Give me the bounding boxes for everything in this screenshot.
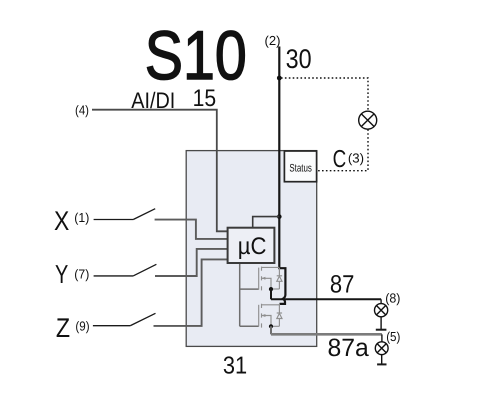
transistor Q1 (high-side MOSFET for 87) <box>259 267 280 291</box>
microcontroller uC box <box>228 228 275 263</box>
switch S2 blade (Y) <box>133 264 156 276</box>
ground below lamp E5 <box>377 363 386 365</box>
svg-text:Status: Status <box>289 163 312 175</box>
module block U1 outline <box>186 151 317 347</box>
svg-text:87a: 87a <box>328 334 369 362</box>
wire input X lead <box>94 219 134 221</box>
lamp E5 on output 87a <box>375 342 388 364</box>
switch S1 blade (X) <box>134 209 156 220</box>
svg-text:30: 30 <box>286 44 312 74</box>
wire 87a output <box>271 333 382 336</box>
svg-text:(7): (7) <box>74 266 89 281</box>
wire 30 rail from pin (2) down to MOSFET drains <box>279 47 285 304</box>
wire input Y lead <box>94 275 134 277</box>
svg-text:Y: Y <box>55 259 68 289</box>
svg-text:(9): (9) <box>75 318 89 333</box>
wire drop to lamp (8) <box>380 299 382 303</box>
svg-text:(4): (4) <box>75 103 89 118</box>
wire X switch to uC <box>155 220 228 239</box>
svg-text:(2): (2) <box>265 33 281 48</box>
node dot uC supply tap on 30 rail <box>277 214 282 219</box>
wire uC supply from 30 rail <box>253 217 280 228</box>
svg-text:87: 87 <box>330 271 355 299</box>
wire Y switch to uC <box>155 249 228 276</box>
wire Z switch to uC <box>154 259 228 326</box>
wire Q2 source down to 87a <box>270 326 272 334</box>
transistor Q2 (high-side MOSFET for 87a) <box>259 304 280 328</box>
svg-text:(8): (8) <box>385 290 400 305</box>
dashed wire from status lamp C to Status box <box>317 129 368 170</box>
Q1 substrate arrowhead <box>262 277 266 280</box>
svg-text:C: C <box>333 146 347 173</box>
wire gate riser from uC to Q1/Q2 gates <box>240 263 259 326</box>
svg-text:X: X <box>54 206 69 236</box>
svg-text:Z: Z <box>56 313 70 343</box>
node dot Q1 source <box>269 287 273 291</box>
dashed wire from 30 rail to status lamp C <box>281 78 368 111</box>
body diode D2 <box>277 304 282 326</box>
body diode D1 <box>277 268 282 289</box>
ground below lamp E8 <box>376 329 387 331</box>
svg-text:(1): (1) <box>74 210 89 225</box>
wire drop to lamp (5) <box>381 334 383 342</box>
wire AI/DI pin (4) to 15 input of uC <box>92 110 228 232</box>
svg-text:31: 31 <box>223 352 247 379</box>
svg-text:15: 15 <box>193 85 217 112</box>
node dot Q2 source <box>269 324 273 328</box>
svg-text:µC: µC <box>238 233 267 260</box>
svg-text:(3): (3) <box>348 151 364 166</box>
wire 87 output <box>271 298 381 300</box>
status lamp C <box>359 111 377 129</box>
wire input Z lead <box>93 325 130 327</box>
switch S3 blade (Z) <box>130 313 155 325</box>
wire Q1 source down to 87 <box>270 289 272 299</box>
svg-text:S10: S10 <box>145 17 247 94</box>
lamp E8 on output 87 <box>375 304 388 330</box>
node dot on 30 rail for status lamp tap <box>277 76 282 81</box>
svg-text:AI/DI: AI/DI <box>131 88 175 113</box>
status box <box>284 151 316 182</box>
Q2 substrate arrowhead <box>262 314 266 317</box>
svg-text:(5): (5) <box>386 329 400 344</box>
